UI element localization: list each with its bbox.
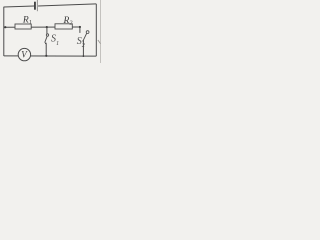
middle wire — [4, 26, 80, 28]
switch S2 — [77, 27, 89, 56]
wire right edge — [95, 4, 97, 56]
node A (middle wire / S1) — [46, 26, 48, 28]
wire top-left segment — [4, 6, 34, 7]
stray pencil mark — [98, 40, 101, 44]
voltmeter V — [18, 48, 30, 60]
battery B positive plate (long thin) — [36, 0, 39, 11]
node at left edge / middle wire — [4, 26, 6, 28]
wire bottom — [4, 55, 97, 57]
resistor R1 — [15, 16, 32, 29]
node S2/bottom wire — [83, 55, 85, 57]
stray page rule at far right — [99, 0, 101, 63]
node B (middle wire / S2) — [79, 26, 81, 28]
wire left edge — [3, 7, 5, 56]
switch S1 — [45, 27, 59, 56]
resistor R2 — [55, 16, 72, 29]
node S1/bottom wire — [45, 55, 47, 57]
wire top-right segment — [38, 4, 96, 6]
battery B negative plate (short thick) — [34, 2, 36, 10]
